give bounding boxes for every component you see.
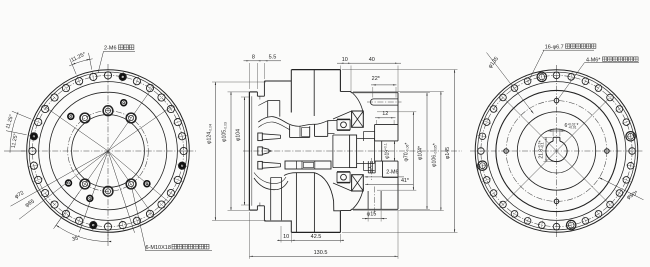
svg-text:6+0.02+0.01*: 6+0.02+0.01* (565, 122, 579, 129)
svg-text:130.5: 130.5 (314, 250, 328, 256)
svg-text:2-M6: 2-M6 (386, 170, 398, 176)
svg-text:φ145: φ145 (445, 147, 451, 159)
svg-text:φ104: φ104 (235, 129, 241, 141)
svg-text:40: 40 (369, 57, 375, 63)
svg-text:10: 10 (342, 57, 348, 63)
svg-text:φ104*: φ104* (418, 146, 424, 160)
svg-text:2-M6: 2-M6 (104, 46, 117, 52)
svg-text:φ15: φ15 (367, 211, 377, 217)
svg-text:10: 10 (283, 234, 289, 240)
svg-text:21.8+0.3+0.1*: 21.8+0.3+0.1* (538, 140, 545, 158)
svg-text:φ106-0.035*: φ106-0.035* (431, 143, 438, 167)
svg-text:41*: 41* (401, 178, 410, 184)
svg-text:8: 8 (252, 55, 255, 61)
svg-text:16-φ6.7: 16-φ6.7 (545, 44, 564, 50)
svg-text:42.5: 42.5 (311, 234, 322, 240)
svg-text:22*: 22* (372, 76, 381, 82)
svg-text:φ70-0.06*: φ70-0.06* (404, 143, 411, 162)
svg-text:6-M10X18: 6-M10X18 (146, 245, 171, 251)
svg-text:5.5: 5.5 (269, 55, 277, 61)
